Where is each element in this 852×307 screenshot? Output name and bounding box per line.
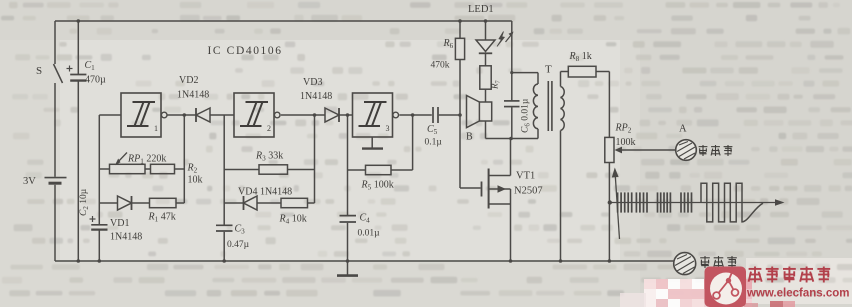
- svg-text:C6 0.01µ: C6 0.01µ: [521, 98, 532, 133]
- wire: top rail right end down: [511, 21, 513, 100]
- resistor R6 470k bias: [455, 21, 464, 115]
- svg-text:VD2: VD2: [179, 75, 198, 86]
- resistor R4 10k: [257, 198, 315, 207]
- resistor R3 33k: [224, 165, 314, 174]
- speaker B: [467, 89, 492, 128]
- wire: bottom 0V rail: [55, 260, 674, 262]
- diode VD4 1N4148: [224, 196, 257, 210]
- wire: gate3 input node vertical: [347, 115, 349, 215]
- transistor VT1 N2507 MOSFET: [482, 139, 511, 262]
- capacitor C1 470u electrolytic: [67, 21, 87, 261]
- potentiometer RP1 220k: [110, 153, 146, 174]
- svg-text:R5 100k: R5 100k: [361, 180, 394, 192]
- capacitor C2 10u electrolytic: [90, 216, 108, 261]
- svg-text:R3 33k: R3 33k: [255, 151, 283, 163]
- capacitor C4 0.01u: [340, 216, 357, 261]
- wire: left rail middle (switch to battery): [54, 83, 56, 177]
- wire: gate3 output feedback vertical: [412, 115, 414, 170]
- svg-text:R1 47k: R1 47k: [148, 212, 176, 224]
- svg-text:RP1 220k: RP1 220k: [127, 154, 166, 166]
- resistor R8 1k: [568, 66, 609, 137]
- svg-text:R8 1k: R8 1k: [569, 51, 592, 63]
- potentiometer RP2 100k: [605, 137, 676, 261]
- svg-text:www.elecfans.com: www.elecfans.com: [746, 288, 849, 300]
- schmitt inverter gate 3 of U1 CD40106: [353, 93, 399, 137]
- wire: gate3 output to C5: [399, 114, 432, 116]
- ground symbol: [337, 261, 358, 276]
- elecfans watermark logo: [705, 267, 747, 307]
- svg-text:0.1µ: 0.1µ: [425, 138, 443, 148]
- svg-text:1N4148: 1N4148: [177, 90, 209, 101]
- label: connect-to-body: [700, 256, 710, 268]
- capacitor C3 0.47u: [216, 225, 233, 261]
- schmitt inverter gate 2 of U1 CD40106: [234, 93, 280, 137]
- svg-text:1N4148: 1N4148: [110, 232, 142, 243]
- wire: speaker to drain node: [485, 121, 487, 139]
- svg-text:LED1: LED1: [468, 4, 494, 15]
- svg-text:470k: 470k: [431, 61, 450, 71]
- wire: secondary bottom to rail: [560, 131, 562, 262]
- gate3 ground bar: [362, 137, 383, 149]
- svg-text:N2507: N2507: [514, 186, 543, 197]
- wire: gate2 output feedback vertical: [314, 115, 316, 203]
- svg-text:10k: 10k: [188, 175, 203, 186]
- svg-text:VD3: VD3: [303, 77, 322, 88]
- wire: VD2 to gate 2 input: [210, 114, 234, 116]
- svg-text:0.47µ: 0.47µ: [227, 240, 250, 250]
- wire: VD3 to gate 3 input: [339, 114, 353, 116]
- wire: C5 to R6/gate node: [439, 114, 460, 116]
- elecfans watermark text: [749, 267, 762, 283]
- electrode (body contact): [674, 253, 696, 275]
- svg-text:IC CD40106: IC CD40106: [208, 45, 283, 57]
- wire: gate2 output to VD3: [281, 114, 325, 116]
- svg-text:B: B: [466, 132, 473, 143]
- diode VD2 1N4148: [196, 108, 210, 122]
- svg-text:A: A: [679, 124, 687, 135]
- svg-text:VD4 1N4148: VD4 1N4148: [238, 187, 292, 198]
- svg-text:1N4148: 1N4148: [300, 91, 332, 102]
- svg-text:1: 1: [154, 124, 158, 133]
- wire: left rail upper (to switch S): [54, 21, 56, 64]
- schmitt inverter gate 1 of U1 CD40106: [121, 93, 167, 137]
- LED1: [476, 21, 514, 53]
- wire: RP1 row left stub: [99, 168, 109, 170]
- resistor R2 10k: [145, 164, 184, 173]
- electrode A (acupoint): [676, 140, 697, 161]
- wire: gate drive dropper to VT1 gate: [459, 115, 461, 188]
- output waveform drawing: [608, 183, 785, 222]
- wire: gate2 input node vertical: [223, 115, 225, 225]
- battery GB 3V: [45, 178, 67, 184]
- capacitor C5 0.1u coupling: [433, 107, 438, 123]
- svg-text:VT1: VT1: [516, 171, 535, 182]
- svg-text:0.01µ: 0.01µ: [358, 229, 381, 239]
- svg-text:2: 2: [267, 124, 271, 133]
- transformer T: [510, 71, 568, 261]
- label: connect-to-acupoint: [699, 145, 708, 156]
- svg-text:100k: 100k: [616, 137, 636, 148]
- svg-text:T: T: [545, 64, 552, 76]
- diode VD3 1N4148: [325, 108, 339, 122]
- svg-text:3V: 3V: [23, 176, 36, 187]
- switch S: [54, 64, 63, 83]
- wire: gate1 output to VD2: [167, 114, 196, 116]
- diode VD1 1N4148: [99, 196, 131, 210]
- resistor R7: [480, 54, 491, 89]
- wire: node1 input to gate 1: [99, 114, 121, 116]
- capacitor C6 0.01u snubber: [504, 101, 520, 139]
- svg-text:470µ: 470µ: [85, 75, 106, 86]
- wire: +3V top rail: [55, 20, 512, 22]
- svg-text:3: 3: [386, 124, 390, 133]
- svg-text:S: S: [36, 65, 42, 77]
- svg-text:VD1: VD1: [110, 218, 129, 229]
- wire: left rail lower (battery to bottom rail): [54, 185, 56, 261]
- wire: gate1 output feedback vertical: [183, 115, 185, 203]
- svg-text:C2 10µ: C2 10µ: [79, 188, 90, 216]
- resistor R5 100k feedback: [348, 165, 413, 174]
- censored pink mosaic block: [620, 279, 795, 307]
- svg-text:R4 10k: R4 10k: [279, 214, 307, 226]
- annotation arrow at RP2 bottom: [612, 168, 620, 240]
- resistor R1 47k: [132, 198, 184, 207]
- wire: gate1 input node vertical: [98, 115, 100, 224]
